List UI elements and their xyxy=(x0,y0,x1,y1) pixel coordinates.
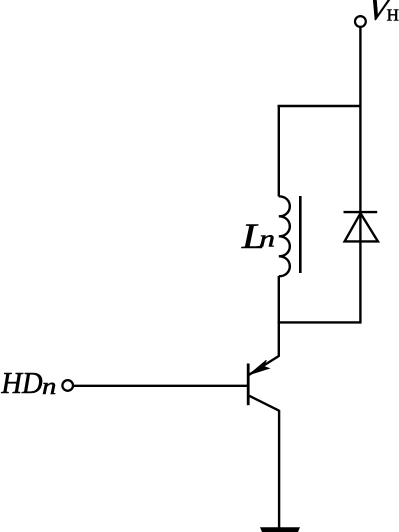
transistor emitter arrow xyxy=(249,360,269,374)
svg-text:n: n xyxy=(42,372,56,399)
wire bottom horizontal xyxy=(278,321,362,323)
terminal HDn xyxy=(62,380,73,391)
wire collector xyxy=(278,322,280,356)
diode cathode bar xyxy=(344,211,378,213)
wire inductor branch lower xyxy=(278,276,280,324)
terminal VH xyxy=(355,16,366,27)
inductor Ln coil xyxy=(279,196,290,276)
transistor emitter diagonal xyxy=(249,396,279,411)
wire top horizontal xyxy=(278,105,361,107)
wire inductor branch upper xyxy=(278,105,280,197)
svg-text:n: n xyxy=(259,226,275,253)
wire base from HDn xyxy=(74,385,248,387)
transistor base bar xyxy=(247,364,250,406)
svg-text:HD: HD xyxy=(0,366,43,400)
wire emitter vertical xyxy=(278,410,280,529)
wire VH vertical xyxy=(359,27,361,322)
transistor collector diagonal xyxy=(249,356,279,375)
diode triangle xyxy=(345,213,378,241)
svg-text:H: H xyxy=(387,5,399,24)
ground xyxy=(260,527,300,532)
inductor Ln core bar xyxy=(299,196,302,273)
